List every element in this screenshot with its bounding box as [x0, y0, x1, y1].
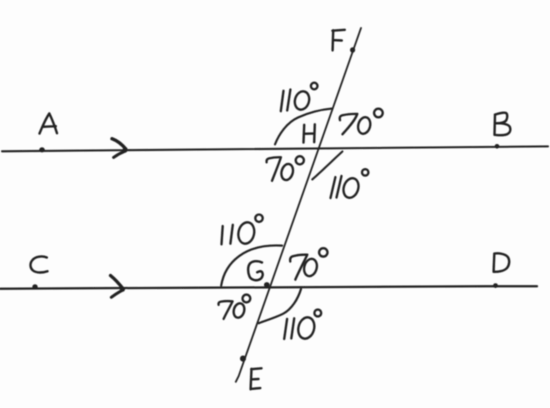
label D: [494, 253, 510, 271]
angle label 110 deg at H lower-right: [331, 169, 369, 200]
label B: [495, 113, 511, 135]
line AB: [2, 146, 548, 151]
angle label 110 deg at G upper-left: [222, 215, 263, 246]
arc at G upper-left (110 deg): [221, 245, 282, 285]
transversal line EF: [236, 28, 361, 382]
line CD: [0, 286, 537, 289]
arc at H lower-right (110 deg): [312, 152, 342, 180]
point on line CD near D: [493, 283, 498, 288]
angle label 70 deg at H right: [340, 109, 383, 135]
point on line AB near B: [495, 144, 500, 149]
arc at G lower-right (110 deg): [259, 289, 301, 323]
angle label 110 deg at G lower-right: [284, 310, 321, 341]
label G: [248, 261, 263, 280]
point at G intersection: [264, 282, 270, 287]
label C: [30, 256, 47, 272]
label A: [40, 114, 58, 134]
arrow on line AB: [112, 139, 126, 149]
angle label 70 deg at G right: [290, 248, 327, 279]
label F: [332, 30, 344, 51]
label H: [304, 124, 315, 142]
point on transversal near F: [350, 47, 355, 52]
label E: [251, 368, 262, 389]
arrow on line CD: [111, 276, 123, 289]
point on line CD near C: [32, 284, 37, 289]
point on line AB near A: [39, 147, 45, 152]
angle label 70 deg at G lower-left: [219, 295, 251, 319]
angle label 110 deg at H upper-left: [281, 83, 318, 112]
angle label 70 deg at H lower-left: [267, 156, 304, 181]
point on transversal near E: [240, 356, 246, 362]
arc at H upper-left (110 deg): [275, 109, 332, 145]
